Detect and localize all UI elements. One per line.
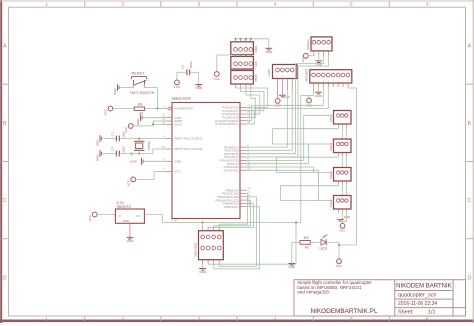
svg-text:NIKODEMBARTNIK.PL: NIKODEMBARTNIK.PL	[311, 308, 378, 315]
svg-text:Sheet:: Sheet:	[398, 310, 414, 316]
svg-text:VCC: VCC	[301, 55, 305, 62]
svg-text:3.3V: 3.3V	[172, 218, 178, 222]
svg-text:VCC: VCC	[174, 85, 181, 89]
svg-text:VCC: VCC	[275, 104, 282, 108]
svg-text:C2: C2	[111, 147, 115, 151]
svg-text:10uF: 10uF	[189, 61, 193, 68]
ground at C1	[99, 135, 101, 142]
UART pin stubs	[277, 79, 279, 99]
svg-text:PC5(ADC5/SCL): PC5(ADC5/SCL)	[215, 122, 238, 126]
IC U1 MEGA8-P box	[172, 103, 240, 219]
svg-text:2016-11-06 22:34: 2016-11-06 22:34	[398, 301, 437, 307]
pin 27 PC4(ADC4/SDA)	[240, 120, 247, 122]
wire ESC3 signal stub join	[337, 184, 339, 187]
svg-text:22pF: 22pF	[121, 131, 125, 138]
junction AVCC	[152, 123, 154, 125]
svg-text:GND: GND	[315, 94, 323, 98]
wire ESC3 power chain	[341, 185, 343, 196]
wire vcc header rail	[236, 54, 251, 56]
svg-text:2: 2	[121, 2, 124, 8]
wire ESC2 signal stub join	[337, 155, 339, 158]
svg-text:7: 7	[342, 80, 343, 82]
frame column ticks bottom	[84, 316, 86, 321]
svg-text:8: 8	[347, 80, 348, 82]
svg-text:UART: UART	[267, 68, 271, 76]
svg-text:AVCC: AVCC	[174, 123, 183, 127]
wire MPU pin1 to VCC	[313, 87, 315, 96]
connector ESC2	[334, 139, 352, 153]
wire gnd to pin	[142, 117, 165, 119]
svg-text:and Atmega328.: and Atmega328.	[297, 290, 330, 295]
wire ESC3 signal feed	[247, 166, 314, 168]
wire gnd header rail	[236, 38, 269, 40]
connector JP SHIELD	[311, 37, 332, 51]
svg-text:4: 4	[292, 75, 293, 77]
ground at UART pin2	[279, 94, 286, 96]
wire SHIELD pin4 down	[328, 55, 330, 66]
svg-text:VCC: VCC	[104, 108, 108, 115]
svg-text:C: C	[467, 198, 471, 204]
svg-text:1/1: 1/1	[428, 310, 436, 316]
supply VCC below ESC4	[345, 213, 347, 222]
pin 14 PB0(ICP)	[240, 189, 247, 191]
resistor R2 300	[300, 241, 310, 245]
pin 18 PB4(MISO)	[240, 202, 247, 204]
pin 25 PC2(ADC2)	[240, 113, 247, 115]
pin 3 PD1(TXD)	[240, 149, 247, 151]
svg-text:4: 4	[328, 80, 329, 82]
pin 13 PD7(AIN1)	[240, 169, 247, 171]
svg-text:3: 3	[198, 2, 201, 8]
svg-text:1: 1	[313, 80, 314, 82]
svg-text:C1: C1	[111, 132, 115, 136]
supply VCC at UART pin1	[275, 99, 280, 104]
pin 21 AREF	[166, 120, 173, 122]
supply VCC at LED	[337, 259, 342, 264]
svg-text:GND: GND	[265, 50, 273, 54]
svg-text:PB5(SCK): PB5(SCK)	[224, 205, 238, 209]
ground at IC GND pin 22	[140, 114, 142, 121]
svg-text:3: 3	[287, 75, 288, 77]
svg-text:VCC: VCC	[254, 60, 258, 67]
pin 16 PB2(SS/OC1B)	[240, 196, 247, 198]
ground at R2	[288, 263, 295, 265]
title block frame	[294, 280, 466, 316]
pin 5 PD3(INT1)	[240, 156, 247, 158]
svg-text:C4: C4	[181, 65, 185, 69]
wire ESC1 signal feed	[247, 159, 304, 161]
wire C1 to XTAL1	[120, 138, 165, 140]
pin 11 PD5(T1)	[240, 163, 247, 165]
connector JP PINS header	[231, 71, 254, 85]
wire regulator output 3.3V rail	[144, 214, 162, 216]
ground at switch	[117, 84, 119, 91]
pin 15 PB1(OC1A)	[240, 193, 247, 195]
svg-text:GND: GND	[288, 265, 296, 269]
svg-text:NRF24L01: NRF24L01	[193, 242, 197, 256]
svg-text:6: 6	[426, 2, 429, 8]
ground at regulator	[127, 236, 134, 238]
connector JP MPU6050	[310, 70, 352, 83]
svg-text:6: 6	[426, 316, 429, 322]
svg-text:2: 2	[318, 80, 319, 82]
pin 7 VCC	[166, 171, 173, 173]
svg-text:PC6(/RESET): PC6(/RESET)	[174, 107, 193, 111]
pin 24 PC1(ADC1)	[240, 110, 247, 112]
supply VCC at regulator input	[92, 212, 97, 217]
ground for header	[265, 47, 272, 49]
svg-text:4: 4	[274, 316, 277, 322]
pin 20 AVCC	[166, 123, 173, 125]
wire ESC4 to ground	[341, 213, 343, 219]
wire NRF MISO from PB5	[247, 206, 260, 208]
supply VCC at R1	[108, 106, 113, 111]
pin 8 GND	[166, 160, 173, 162]
connector ESC3	[334, 168, 352, 182]
supply VCC at IC VCC pin	[131, 177, 136, 182]
svg-text:NIKODEM BARTNIK: NIKODEM BARTNIK	[396, 284, 452, 290]
NRF pin stubs bottom	[202, 260, 204, 264]
svg-text:4: 4	[274, 2, 277, 8]
wire ESC1 signal stub join	[337, 127, 339, 130]
wire ESC2 power chain	[341, 156, 343, 167]
svg-text:SHIELD: SHIELD	[306, 40, 310, 50]
wire gnd to R2	[291, 242, 293, 263]
wire SHIELD pin3 to I2C	[323, 55, 325, 63]
svg-text:2: 2	[121, 316, 124, 322]
svg-text:GND: GND	[174, 160, 182, 164]
wire UART RXD to PD0	[286, 90, 288, 147]
svg-text:5: 5	[350, 2, 353, 8]
svg-text:5: 5	[333, 80, 334, 82]
supply VCC at AVCC	[128, 124, 133, 129]
wires PINS header to PC0-PC3	[235, 87, 237, 88]
supply VCC at MPU	[307, 98, 312, 103]
connector JP NRF24L01	[199, 231, 224, 260]
ground at C2	[99, 150, 101, 157]
pin 22 GND	[166, 117, 173, 119]
svg-text:1: 1	[277, 75, 278, 77]
wire crystal to xtal nets	[138, 139, 140, 142]
wire ESC1 power chain	[341, 128, 343, 139]
wire ESC2 signal feed	[247, 163, 309, 165]
pin 9 PB6(XTAL1/TOSC1)	[166, 138, 173, 140]
wire UART TXD to PD1	[291, 90, 293, 150]
svg-text:2: 2	[282, 75, 283, 77]
svg-text:GND: GND	[199, 270, 207, 274]
wire R2 to LED	[310, 241, 321, 243]
junction LED net	[339, 244, 357, 246]
frame outer border	[0, 0, 2, 323]
capacitor C1 22pF	[103, 138, 116, 140]
pin 12 PD6(AIN0)	[240, 166, 247, 168]
wire MPU SCL to PC5	[327, 87, 329, 109]
svg-text:RESET: RESET	[132, 71, 146, 76]
svg-text:78MSTV: 78MSTV	[116, 205, 131, 209]
wire C4 left to VCC	[177, 71, 187, 73]
frame row ticks left	[1, 83, 8, 85]
wire MPU INT to long vertical	[347, 87, 349, 88]
svg-text:GND: GND	[95, 154, 99, 162]
wire MPU SDA to PC4	[322, 87, 324, 105]
svg-text:quadcopter_sch: quadcopter_sch	[398, 293, 436, 299]
wire NRF MOSI from PB2	[247, 196, 257, 198]
svg-text:GND: GND	[95, 139, 99, 147]
svg-text:VCC: VCC	[174, 170, 181, 174]
pin 17 PB3(MOSI/OC2)	[240, 199, 247, 201]
wire R1 to PC6	[145, 108, 166, 110]
SHIELD pin stubs	[313, 51, 315, 55]
regulator ground pin	[129, 223, 131, 237]
pin 19 PB5(SCK)	[240, 206, 247, 208]
svg-text:GND: GND	[113, 88, 117, 96]
pin 4 PD2(INT0)	[240, 153, 247, 155]
NRF pin stubs top	[202, 227, 204, 231]
pin 23 PC0(ADC0)	[240, 106, 247, 108]
frame row ticks right	[466, 83, 474, 85]
connector JP VCC header	[231, 57, 254, 70]
wire C2 to XTAL2	[120, 153, 153, 155]
svg-text:TACT-SWITCH: TACT-SWITCH	[130, 91, 155, 95]
wire vcc to AVCC and AREF	[133, 125, 153, 127]
svg-text:LED1: LED1	[320, 246, 328, 250]
svg-text:D: D	[3, 275, 7, 281]
svg-text:GND: GND	[195, 86, 203, 90]
wire NRF VCC to 3.3V rail	[202, 222, 204, 226]
pin 28 PC5(ADC5/SCL)	[240, 123, 247, 125]
ground at SHIELD	[318, 55, 320, 61]
capacitor C4 10uF	[186, 69, 188, 75]
svg-text:3: 3	[198, 316, 201, 322]
svg-text:VCC: VCC	[126, 179, 130, 186]
connector ESC4	[334, 196, 352, 210]
wire NRF SCK from PB4	[247, 202, 254, 204]
svg-text:VI: VI	[118, 214, 121, 218]
svg-text:PB6(XTAL1/TOSC1): PB6(XTAL1/TOSC1)	[174, 137, 202, 141]
pin 6 PD4(XCK/T0)	[240, 159, 247, 161]
svg-text:VCC: VCC	[88, 214, 92, 221]
wire C4 right to GND	[190, 71, 199, 73]
supply VCC at C4	[175, 80, 180, 85]
resistor R1 10k	[134, 107, 144, 111]
capacitor C2 22pF	[103, 153, 116, 155]
svg-text:10k: 10k	[137, 103, 143, 107]
svg-text:GND: GND	[130, 160, 138, 164]
svg-text:GND: GND	[254, 45, 258, 53]
svg-text:PD7(AIN1): PD7(AIN1)	[224, 169, 239, 173]
svg-text:GND: GND	[123, 219, 129, 223]
svg-text:5: 5	[350, 316, 353, 322]
svg-text:D: D	[467, 275, 471, 281]
svg-text:MPU6050: MPU6050	[305, 68, 309, 81]
wire NRF CSN from PB3	[247, 199, 251, 201]
connector JP GND header	[231, 42, 254, 55]
LED LED1	[321, 239, 326, 245]
svg-text:MEGA8-P: MEGA8-P	[172, 96, 191, 101]
crystal Q1 16MHz	[134, 140, 144, 142]
svg-text:3: 3	[323, 80, 324, 82]
svg-text:PB7(XTAL2/TOSC2): PB7(XTAL2/TOSC2)	[174, 147, 202, 151]
junction reset net	[156, 107, 158, 109]
wire vcc to VI	[97, 214, 115, 216]
wire gnd to pin 8	[143, 160, 165, 162]
ground at MPU	[317, 87, 319, 92]
svg-text:22pF: 22pF	[121, 146, 125, 153]
wire NRF IRQ	[207, 263, 209, 265]
svg-text:VCC: VCC	[336, 264, 343, 268]
wire ESC4 signal feed	[247, 169, 319, 171]
regulator IC2 78MSTV 3.3V	[115, 209, 144, 223]
svg-text:16MHz: 16MHz	[147, 141, 151, 151]
svg-text:R2: R2	[305, 246, 309, 250]
svg-text:300: 300	[303, 236, 309, 240]
wire vcc to R1	[113, 108, 134, 110]
ground at NRF	[202, 264, 204, 269]
pin 10 PB7(XTAL2/TOSC2)	[166, 148, 173, 150]
svg-text:VCC: VCC	[214, 77, 221, 81]
connector ESC1	[334, 111, 352, 125]
pin 26 PC3(ADC3)	[240, 116, 247, 118]
supply VCC for header	[217, 54, 236, 56]
svg-text:GND: GND	[344, 215, 350, 219]
wire LED to VCC	[326, 241, 339, 243]
connector JP UART	[273, 65, 297, 79]
MPU6050 pin stubs	[313, 83, 315, 87]
svg-text:VO: VO	[136, 214, 141, 218]
svg-text:1: 1	[45, 316, 48, 322]
pin 1 PC6(/RESET)	[166, 108, 169, 110]
svg-text:6: 6	[338, 80, 339, 82]
ground at C4	[195, 84, 202, 86]
wire switch to reset net	[145, 87, 158, 89]
svg-text:GND: GND	[136, 118, 140, 126]
wire vcc to pin 7	[136, 178, 154, 180]
supply VCC at SHIELD	[303, 53, 308, 58]
frame column ticks top	[84, 1, 86, 7]
wire switch to ground	[119, 87, 133, 89]
wire NRF CE from PB1	[246, 193, 249, 195]
svg-text:VCC: VCC	[339, 229, 346, 233]
svg-text:PINS: PINS	[254, 74, 258, 81]
svg-text:GND: GND	[127, 239, 135, 243]
pin 2 PD0(RXD)	[240, 146, 247, 148]
svg-text:C: C	[3, 198, 7, 204]
svg-text:1: 1	[45, 2, 48, 8]
